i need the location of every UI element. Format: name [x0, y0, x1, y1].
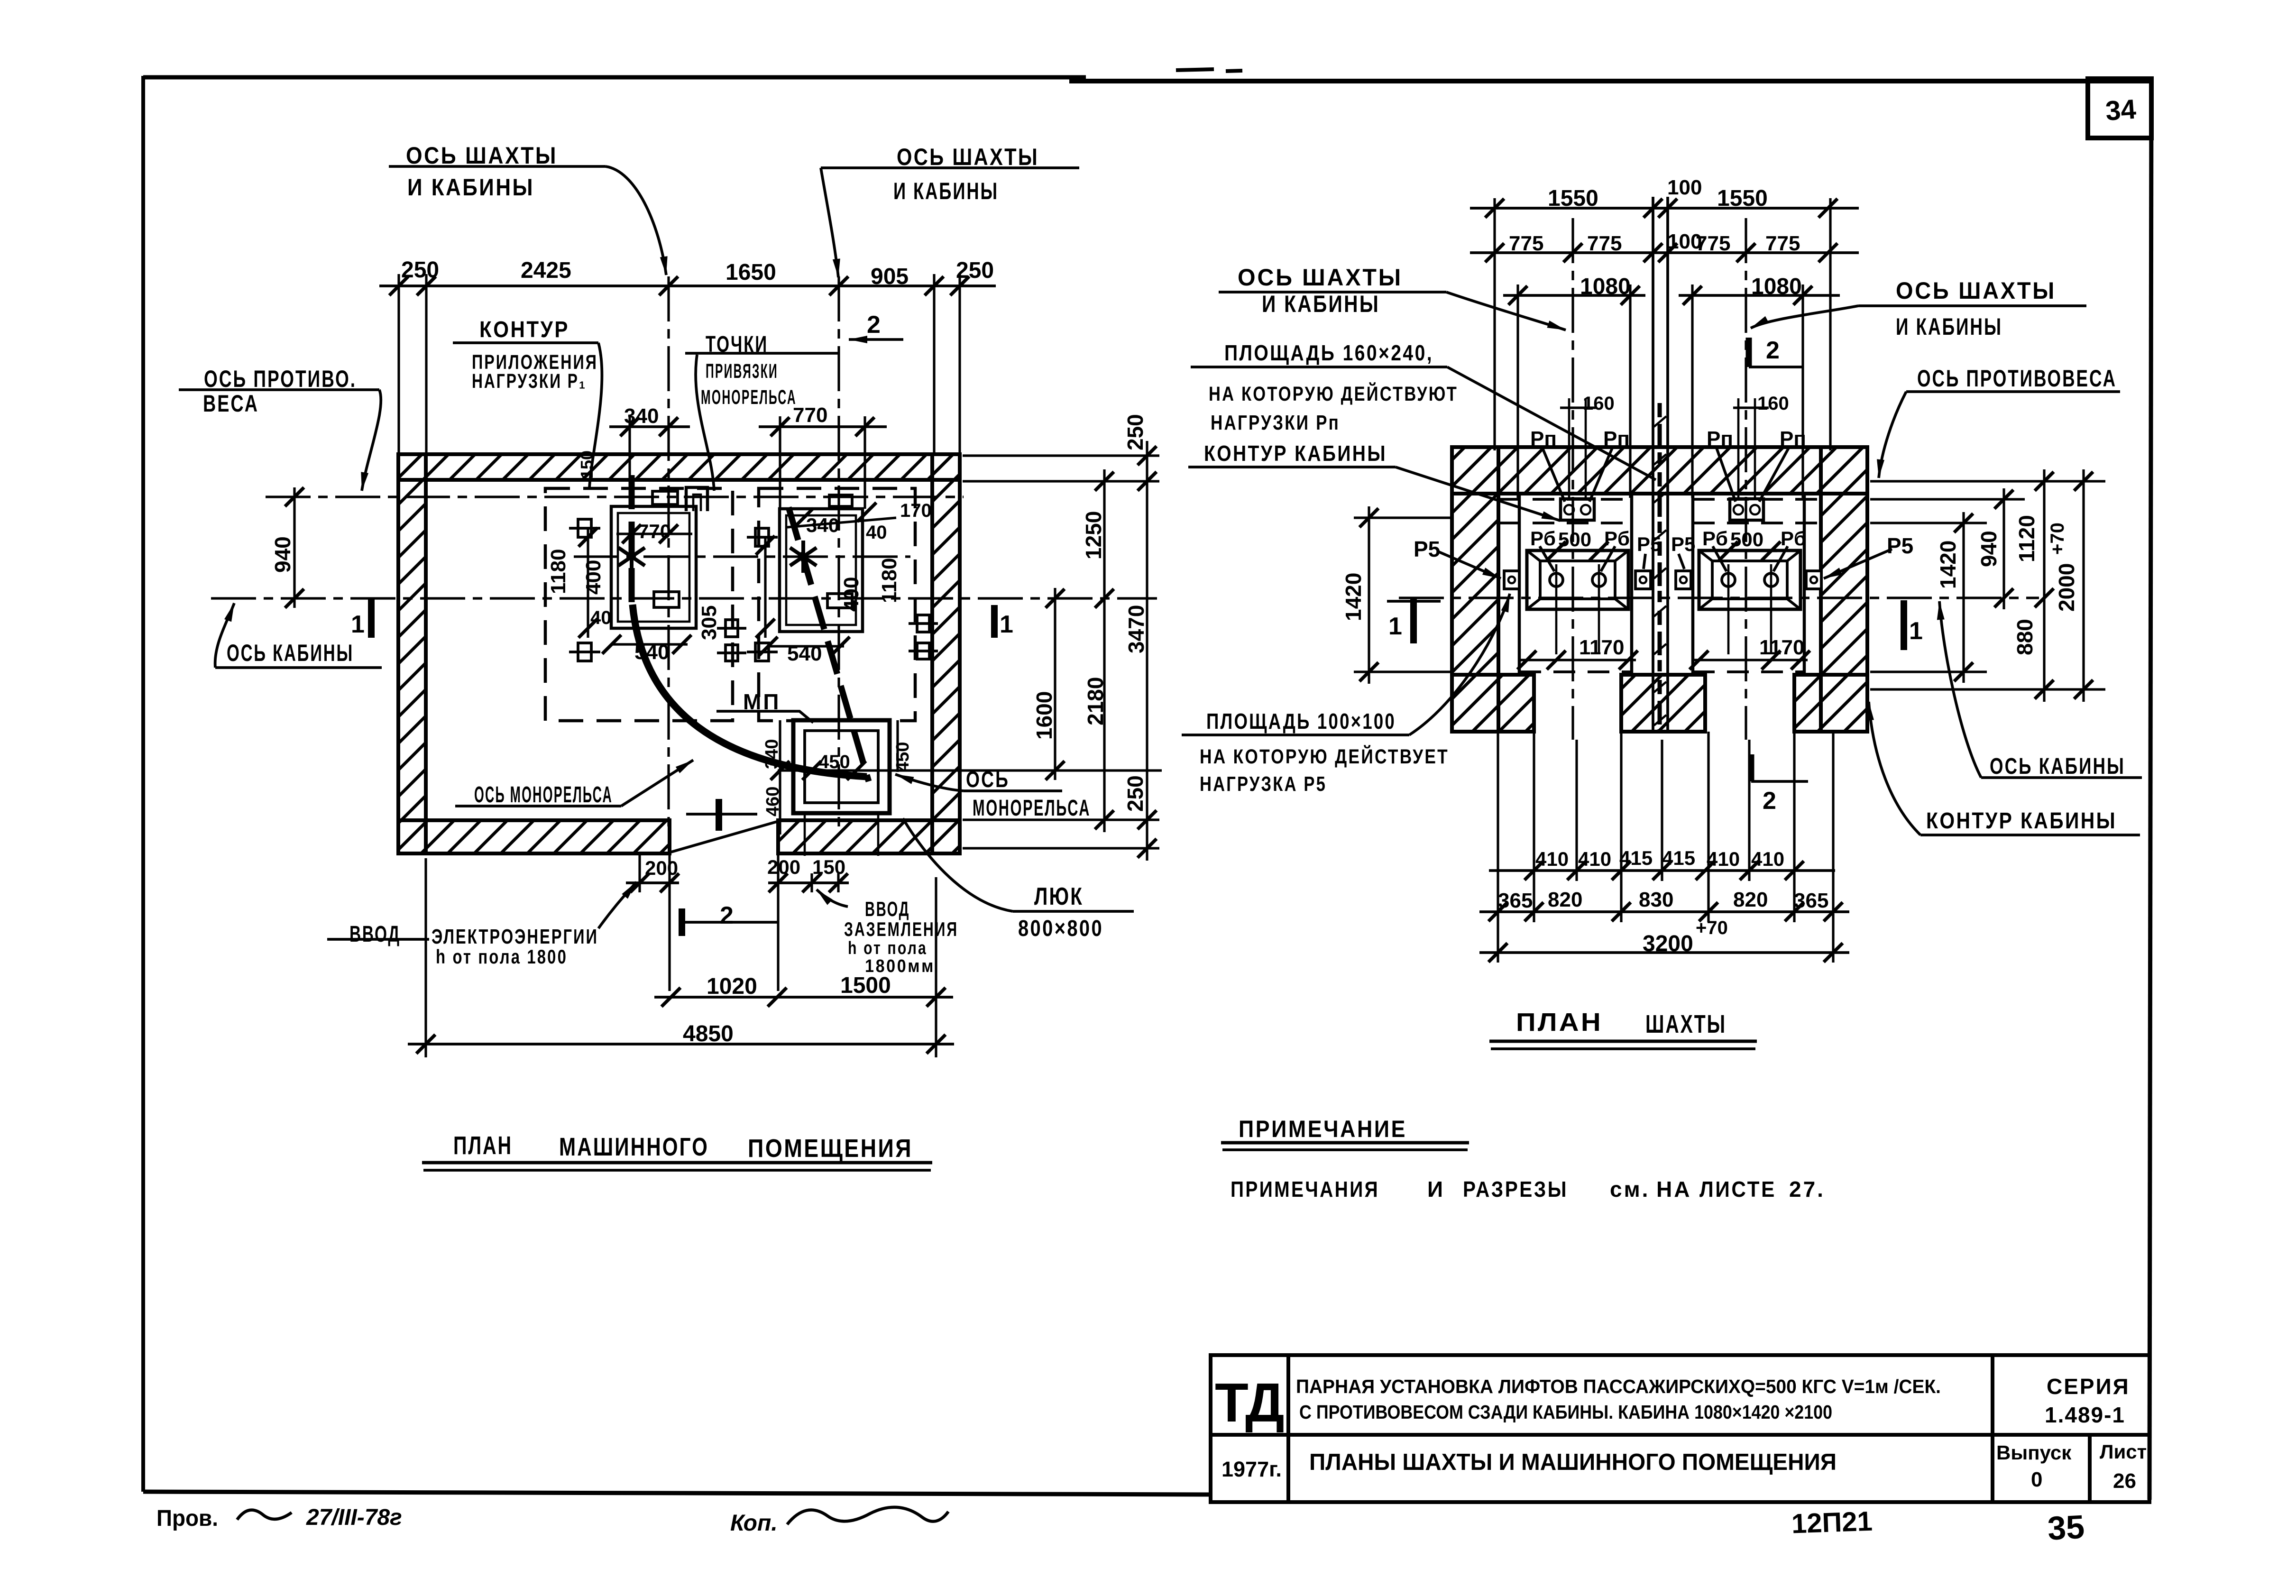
svg-text:340: 340 — [624, 404, 659, 428]
svg-text:ОСЬ: ОСЬ — [966, 767, 1010, 792]
svg-text:1420: 1420 — [1936, 541, 1960, 589]
svg-text:ОСЬ ШАХТЫ: ОСЬ ШАХТЫ — [897, 144, 1039, 170]
svg-text:НА: НА — [1656, 1177, 1691, 1202]
svg-text:Рп: Рп — [1530, 427, 1557, 450]
svg-text:КОНТУР КАБИНЫ: КОНТУР КАБИНЫ — [1926, 808, 2117, 834]
svg-text:450: 450 — [893, 742, 913, 772]
svg-text:ШАХТЫ: ШАХТЫ — [1645, 1010, 1727, 1038]
svg-text:ЛИСТЕ: ЛИСТЕ — [1699, 1177, 1776, 1202]
svg-text:ПРИВЯЗКИ: ПРИВЯЗКИ — [706, 360, 778, 383]
svg-text:И КАБИНЫ: И КАБИНЫ — [893, 178, 999, 204]
svg-text:КОНТУР КАБИНЫ: КОНТУР КАБИНЫ — [1204, 441, 1387, 466]
svg-text:+70: +70 — [2047, 523, 2068, 555]
svg-text:170: 170 — [900, 500, 932, 521]
svg-text:460: 460 — [763, 787, 783, 816]
svg-text:2: 2 — [1763, 787, 1776, 815]
svg-text:1650: 1650 — [726, 260, 776, 285]
svg-text:НА КОТОРУЮ ДЕЙСТВУЕТ: НА КОТОРУЮ ДЕЙСТВУЕТ — [1200, 745, 1449, 768]
svg-text:ВВОД: ВВОД — [865, 898, 910, 921]
svg-text:905: 905 — [871, 264, 909, 289]
svg-text:h от пола 1800: h от пола 1800 — [436, 945, 568, 968]
svg-text:250: 250 — [1123, 414, 1148, 450]
svg-text:415: 415 — [1619, 847, 1653, 869]
svg-text:26: 26 — [2113, 1469, 2136, 1493]
svg-text:1080: 1080 — [1751, 274, 1802, 299]
svg-text:1170: 1170 — [1579, 636, 1624, 659]
svg-text:150: 150 — [577, 450, 597, 479]
svg-text:340: 340 — [762, 739, 782, 769]
svg-text:Лист: Лист — [2100, 1440, 2147, 1463]
svg-text:40: 40 — [866, 522, 887, 543]
svg-text:И КАБИНЫ: И КАБИНЫ — [1896, 313, 2002, 340]
svg-text:ОСЬ КАБИНЫ: ОСЬ КАБИНЫ — [1990, 754, 2125, 779]
svg-text:2: 2 — [867, 311, 881, 339]
svg-text:ВВОД: ВВОД — [349, 922, 401, 947]
svg-text:1120: 1120 — [2014, 515, 2039, 562]
svg-text:2: 2 — [720, 902, 734, 929]
svg-text:27.: 27. — [1789, 1177, 1825, 1202]
svg-text:365: 365 — [1498, 889, 1533, 912]
svg-text:ПЛОЩАДЬ 100×100: ПЛОЩАДЬ 100×100 — [1206, 709, 1396, 734]
svg-text:410: 410 — [1578, 848, 1611, 870]
svg-text:340: 340 — [806, 514, 839, 536]
svg-text:160: 160 — [1757, 393, 1789, 414]
svg-text:Коп.: Коп. — [730, 1511, 778, 1536]
svg-text:ПРИМЕЧАНИЯ: ПРИМЕЧАНИЯ — [1231, 1177, 1379, 1202]
svg-text:500: 500 — [1558, 528, 1591, 550]
svg-text:540: 540 — [634, 641, 669, 664]
svg-text:200: 200 — [767, 856, 800, 878]
svg-text:150: 150 — [812, 856, 845, 878]
svg-text:Рп: Рп — [1707, 427, 1733, 450]
svg-text:ПЛОЩАДЬ 160×240,: ПЛОЩАДЬ 160×240, — [1224, 340, 1433, 365]
svg-text:40: 40 — [590, 607, 612, 628]
svg-text:Р5: Р5 — [1414, 537, 1440, 561]
svg-text:410: 410 — [1707, 848, 1740, 870]
svg-text:410: 410 — [1535, 848, 1569, 870]
svg-text:Р5: Р5 — [1637, 533, 1661, 555]
svg-text:МП: МП — [743, 689, 781, 714]
svg-text:ВЕСА: ВЕСА — [203, 390, 259, 417]
svg-text:ПРИМЕЧАНИЕ: ПРИМЕЧАНИЕ — [1239, 1116, 1407, 1142]
svg-text:775: 775 — [1587, 232, 1622, 255]
svg-text:1977г.: 1977г. — [1221, 1457, 1282, 1481]
svg-text:НАГРУЗКИ Р₁: НАГРУЗКИ Р₁ — [472, 370, 587, 393]
svg-text:200: 200 — [645, 857, 678, 879]
svg-text:МОНОРЕЛЬСА: МОНОРЕЛЬСА — [701, 386, 797, 409]
svg-text:ТОЧКИ: ТОЧКИ — [706, 332, 768, 357]
svg-text:1170: 1170 — [1759, 636, 1804, 659]
svg-text:Пров.: Пров. — [156, 1506, 218, 1531]
svg-text:400: 400 — [582, 560, 605, 595]
svg-text:МАШИННОГО: МАШИННОГО — [559, 1133, 709, 1161]
svg-text:540: 540 — [787, 642, 822, 665]
svg-text:НАГРУЗКИ Рп: НАГРУЗКИ Рп — [1211, 411, 1340, 434]
svg-text:800×800: 800×800 — [1018, 916, 1103, 941]
svg-text:12П21: 12П21 — [1791, 1506, 1873, 1540]
svg-text:Рб: Рб — [1604, 527, 1630, 550]
svg-text:1: 1 — [1000, 611, 1013, 638]
svg-text:Выпуск: Выпуск — [1996, 1441, 2072, 1464]
svg-text:ОСЬ ШАХТЫ: ОСЬ ШАХТЫ — [1238, 264, 1403, 291]
svg-text:775: 775 — [1696, 232, 1730, 255]
svg-text:940: 940 — [270, 536, 295, 573]
svg-text:365: 365 — [1794, 889, 1828, 912]
svg-text:4850: 4850 — [683, 1021, 734, 1046]
svg-text:ПАРНАЯ УСТАНОВКА ЛИФТОВ ПАССАЖ: ПАРНАЯ УСТАНОВКА ЛИФТОВ ПАССАЖИРСКИХQ=50… — [1296, 1376, 1941, 1397]
svg-text:1020: 1020 — [707, 974, 757, 999]
svg-text:2425: 2425 — [521, 258, 571, 283]
svg-text:Рп: Рп — [1603, 427, 1630, 450]
svg-text:3200: 3200 — [1643, 931, 1693, 956]
svg-text:305: 305 — [698, 605, 721, 640]
svg-text:2000: 2000 — [2054, 563, 2079, 612]
svg-text:1.489-1: 1.489-1 — [2045, 1403, 2125, 1427]
svg-text:ОСЬ ШАХТЫ: ОСЬ ШАХТЫ — [406, 142, 558, 169]
svg-text:Р5: Р5 — [1887, 533, 1913, 558]
svg-text:ОСЬ КАБИНЫ: ОСЬ КАБИНЫ — [227, 640, 354, 666]
svg-text:ОСЬ ШАХТЫ: ОСЬ ШАХТЫ — [1896, 277, 2056, 304]
svg-text:ОСЬ ПРОТИВО.: ОСЬ ПРОТИВО. — [204, 366, 357, 392]
svg-text:160: 160 — [1583, 393, 1615, 414]
svg-text:1550: 1550 — [1717, 186, 1768, 211]
svg-text:ПОМЕЩЕНИЯ: ПОМЕЩЕНИЯ — [748, 1134, 913, 1163]
svg-text:КОНТУР: КОНТУР — [479, 317, 569, 342]
svg-text:2: 2 — [1766, 337, 1780, 364]
svg-text:Рб: Рб — [1781, 527, 1806, 550]
svg-text:2180: 2180 — [1083, 677, 1108, 725]
svg-text:1080: 1080 — [1580, 274, 1631, 299]
svg-text:415: 415 — [1662, 847, 1695, 869]
svg-text:Рб: Рб — [1702, 527, 1728, 550]
svg-text:ЗАЗЕМЛЕНИЯ: ЗАЗЕМЛЕНИЯ — [844, 918, 958, 940]
svg-text:1: 1 — [351, 611, 365, 638]
svg-text:775: 775 — [1509, 232, 1543, 255]
svg-text:РАЗРЕЗЫ: РАЗРЕЗЫ — [1463, 1177, 1568, 1202]
svg-text:400: 400 — [840, 577, 863, 612]
svg-text:35: 35 — [2047, 1508, 2085, 1547]
svg-text:100: 100 — [1667, 176, 1702, 199]
svg-text:820: 820 — [1548, 888, 1582, 911]
svg-text:Рп: Рп — [1780, 427, 1806, 450]
svg-text:770: 770 — [793, 404, 827, 427]
svg-text:27/III-78г: 27/III-78г — [306, 1505, 402, 1530]
svg-text:1180: 1180 — [878, 558, 901, 603]
svg-text:см.: см. — [1610, 1177, 1650, 1202]
svg-text:250: 250 — [1123, 775, 1148, 812]
svg-text:ТД: ТД — [1215, 1372, 1284, 1433]
svg-text:ПЛАНЫ ШАХТЫ И МАШИННОГО П: ПЛАНЫ ШАХТЫ И МАШИННОГО ПОМЕЩЕНИЯ — [1309, 1449, 1837, 1475]
svg-text:ОСЬ МОНОРЕЛЬСА: ОСЬ МОНОРЕЛЬСА — [474, 782, 613, 807]
svg-text:И КАБИНЫ: И КАБИНЫ — [407, 174, 534, 201]
svg-text:МОНОРЕЛЬСА: МОНОРЕЛЬСА — [973, 796, 1091, 821]
svg-text:НАГРУЗКА Р5: НАГРУЗКА Р5 — [1200, 772, 1327, 796]
svg-text:ПЛАН: ПЛАН — [453, 1131, 513, 1160]
svg-text:Р5: Р5 — [1671, 533, 1695, 555]
svg-text:3470: 3470 — [1124, 605, 1148, 653]
svg-text:250: 250 — [956, 258, 994, 283]
svg-text:1550: 1550 — [1548, 186, 1598, 211]
svg-text:820: 820 — [1733, 888, 1768, 911]
svg-text:830: 830 — [1639, 888, 1673, 911]
svg-text:1: 1 — [1909, 617, 1923, 645]
svg-text:И: И — [1427, 1177, 1445, 1202]
svg-text:ОСЬ ПРОТИВОВЕСА: ОСЬ ПРОТИВОВЕСА — [1917, 365, 2117, 392]
svg-text:1600: 1600 — [1032, 691, 1056, 740]
svg-text:500: 500 — [1730, 528, 1763, 550]
svg-text:940: 940 — [1976, 531, 2001, 567]
svg-text:И КАБИНЫ: И КАБИНЫ — [1262, 291, 1380, 317]
svg-text:ЛЮК: ЛЮК — [1034, 883, 1084, 910]
svg-text:250: 250 — [401, 257, 439, 283]
svg-text:СЕРИЯ: СЕРИЯ — [2047, 1374, 2130, 1399]
svg-text:1500: 1500 — [840, 973, 891, 998]
svg-text:+70: +70 — [1696, 917, 1728, 938]
svg-text:ЭЛЕКТРОЭНЕРГИИ: ЭЛЕКТРОЭНЕРГИИ — [432, 925, 598, 948]
svg-text:880: 880 — [2012, 619, 2037, 655]
svg-text:770: 770 — [638, 520, 671, 542]
svg-text:С ПРОТИВОВЕСОМ СЗАДИ КАБИНЫ.: С ПРОТИВОВЕСОМ СЗАДИ КАБИНЫ. КАБИНА 1080… — [1299, 1401, 1832, 1423]
svg-text:Рб: Рб — [1530, 527, 1556, 550]
svg-text:34: 34 — [2104, 94, 2137, 127]
svg-text:410: 410 — [1751, 848, 1784, 870]
svg-text:0: 0 — [2031, 1468, 2042, 1491]
svg-text:1420: 1420 — [1341, 573, 1366, 621]
svg-text:450: 450 — [818, 752, 850, 772]
svg-text:775: 775 — [1765, 232, 1800, 255]
svg-text:НА КОТОРУЮ ДЕЙСТВУЮТ: НА КОТОРУЮ ДЕЙСТВУЮТ — [1209, 382, 1458, 405]
svg-text:1250: 1250 — [1081, 511, 1106, 560]
svg-text:h от пола: h от пола — [848, 938, 928, 958]
svg-text:ПЛАН: ПЛАН — [1516, 1008, 1603, 1036]
svg-text:1180: 1180 — [547, 549, 570, 594]
svg-text:1: 1 — [1388, 613, 1402, 640]
